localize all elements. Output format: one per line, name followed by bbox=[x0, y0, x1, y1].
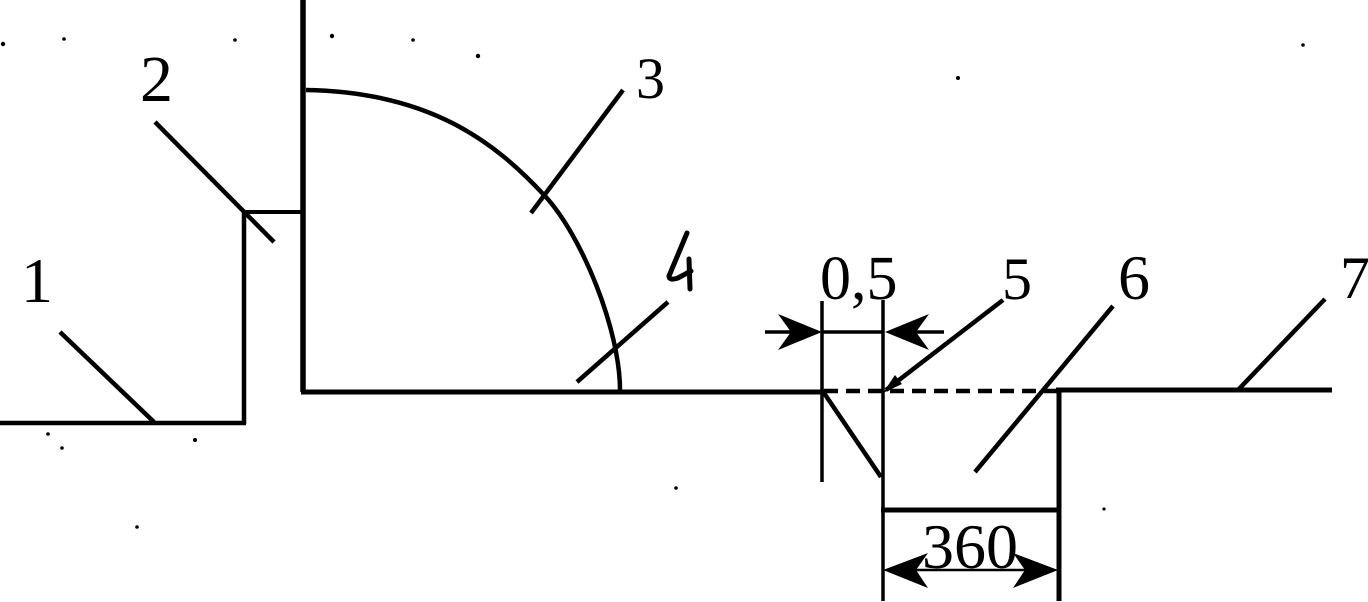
leader line 3 bbox=[531, 90, 623, 213]
svg-text:6: 6 bbox=[1118, 242, 1150, 313]
svg-text:1: 1 bbox=[21, 245, 53, 316]
dimension 360 arrowhead left bbox=[883, 553, 928, 588]
leader line 6 bbox=[975, 306, 1113, 472]
leader line 2 bbox=[155, 122, 274, 242]
extension line left (0,5) bbox=[820, 301, 824, 482]
leader line 5 arrowhead bbox=[883, 375, 902, 393]
step left vertical bbox=[242, 210, 247, 424]
svg-text:5: 5 bbox=[1002, 246, 1032, 312]
baseline dashed segment over recess bbox=[824, 389, 1058, 394]
dimension 0,5 arrowhead left bbox=[778, 314, 822, 350]
dimension 0,5 line between extension lines bbox=[822, 330, 883, 334]
leader line 5 bbox=[886, 300, 1003, 390]
recess slanted left wall bbox=[824, 393, 881, 477]
dimension 360 line bbox=[905, 569, 1035, 572]
recess right wall / 360 right extension bbox=[1057, 391, 1062, 601]
leader line 4 bbox=[577, 302, 668, 382]
label 4 (handwritten) bbox=[669, 233, 691, 289]
baseline solid left segment bbox=[301, 390, 824, 395]
scan specks bbox=[1, 34, 1305, 529]
step connector horizontal bbox=[242, 210, 303, 214]
svg-text:0,5: 0,5 bbox=[820, 245, 898, 313]
svg-text:7: 7 bbox=[1340, 245, 1368, 311]
svg-text:360: 360 bbox=[922, 511, 1018, 582]
main vertical line (shutter edge) bbox=[300, 0, 306, 392]
leader line 7 bbox=[1238, 299, 1325, 390]
leader line 1 bbox=[60, 332, 154, 422]
bottom-left horizontal line bbox=[0, 421, 246, 426]
dimension 360 arrowhead right bbox=[1013, 553, 1058, 588]
dimension 0,5 arrowhead right bbox=[885, 314, 929, 350]
arc (door swing) bbox=[306, 90, 620, 390]
dimension 0,5 tail line left bbox=[765, 330, 800, 334]
baseline solid right segment bbox=[1056, 388, 1332, 393]
svg-text:2: 2 bbox=[140, 43, 173, 116]
extension line middle (0,5 right / 360 left) bbox=[881, 300, 885, 601]
recess bottom line bbox=[881, 508, 1060, 513]
dimension 0,5 tail line right bbox=[908, 330, 944, 334]
svg-text:3: 3 bbox=[636, 46, 665, 111]
